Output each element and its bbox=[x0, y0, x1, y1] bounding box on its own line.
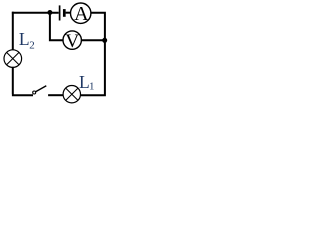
node: junction dot on right rail at voltmeter lead bbox=[102, 38, 107, 43]
switch S pivot circle bbox=[33, 91, 36, 94]
node: junction dot on top wire bbox=[47, 10, 52, 15]
svg-text:1: 1 bbox=[89, 80, 95, 92]
wire: battery to ammeter bbox=[66, 12, 71, 14]
wire: top horizontal from top-left corner to battery bbox=[12, 12, 59, 14]
wire: lamp L2 down to bottom-left corner then right to switch bbox=[12, 67, 33, 95]
wire: voltmeter left lead up to junction on top wire bbox=[50, 13, 63, 42]
lamp L2: circle with cross bbox=[4, 50, 22, 68]
wire: voltmeter right lead to right rail bbox=[82, 39, 104, 41]
svg-text:2: 2 bbox=[29, 39, 35, 51]
switch S lever (open) bbox=[36, 86, 47, 92]
voltmeter V circle bbox=[63, 31, 81, 49]
svg-text:V: V bbox=[65, 31, 79, 52]
wire: left vertical from top corner down to lamp L2 bbox=[12, 12, 14, 51]
battery cell B: short thick negative electrode bbox=[63, 9, 66, 17]
ammeter A circle bbox=[71, 3, 91, 23]
svg-text:A: A bbox=[74, 3, 89, 25]
wire: switch fixed contact to lamp L1 bbox=[48, 94, 63, 96]
wire: ammeter to top-right corner, down right rail, to lamp L1 bbox=[81, 13, 105, 96]
battery cell B: long positive electrode bbox=[59, 5, 61, 20]
lamp L1: circle with cross bbox=[63, 86, 80, 103]
svg-text:L: L bbox=[19, 29, 30, 49]
